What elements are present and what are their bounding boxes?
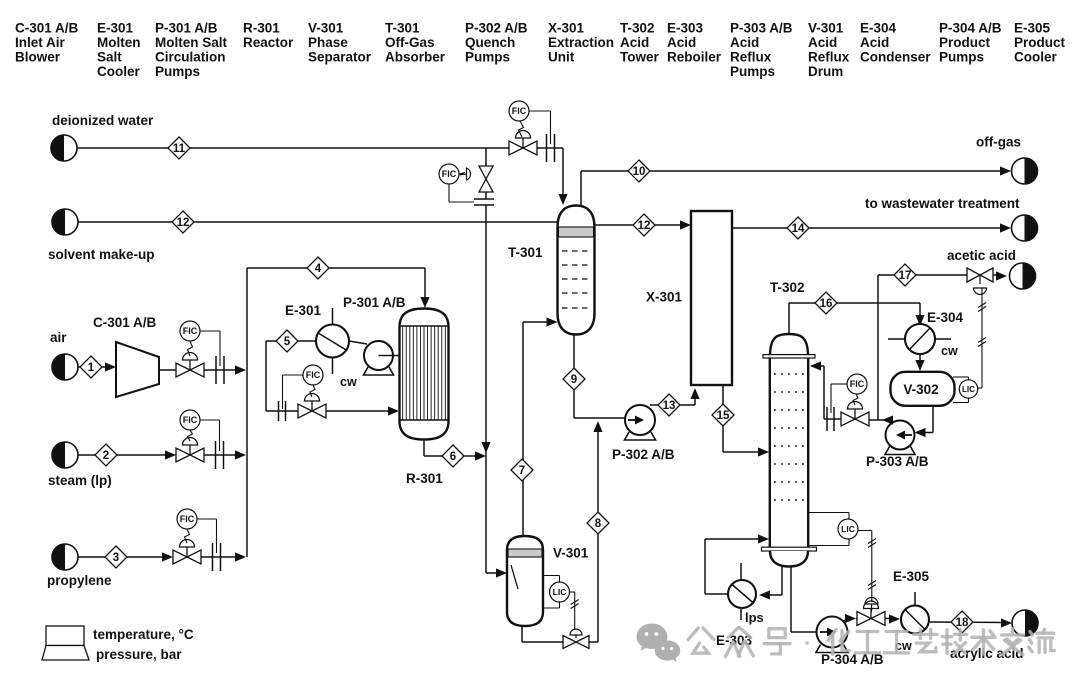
svg-text:V-301: V-301 bbox=[808, 21, 844, 36]
orifice propylene bbox=[212, 543, 214, 571]
svg-text:P-303 A/B: P-303 A/B bbox=[866, 454, 929, 469]
svg-text:off-gas: off-gas bbox=[976, 135, 1021, 150]
svg-text:T-301: T-301 bbox=[508, 245, 543, 260]
bottom head T-302 bbox=[770, 551, 808, 567]
svg-text:P-302 A/B: P-302 A/B bbox=[612, 447, 675, 462]
wire quench line to V-301 bbox=[485, 456, 487, 573]
svg-text:15: 15 bbox=[717, 410, 730, 422]
svg-text:pressure, bar: pressure, bar bbox=[96, 647, 182, 662]
vessel V-301 bbox=[507, 536, 543, 626]
node 11 bbox=[168, 137, 190, 159]
svg-text:acetic acid: acetic acid bbox=[947, 248, 1016, 263]
wire FIC tap air bbox=[200, 330, 220, 332]
svg-text:steam (lp): steam (lp) bbox=[48, 473, 112, 488]
svg-text:11: 11 bbox=[173, 143, 186, 155]
trays T-301 bbox=[562, 250, 590, 252]
orifice quench branch bbox=[485, 192, 487, 199]
FIC propylene bbox=[177, 509, 197, 529]
svg-text:V-301: V-301 bbox=[553, 546, 589, 561]
svg-text:FIC: FIC bbox=[183, 326, 198, 336]
product marker off-gas bbox=[1012, 158, 1038, 184]
vertical control valve quench branch bbox=[479, 166, 493, 179]
svg-text:T-302: T-302 bbox=[620, 21, 655, 36]
svg-text:Reflux: Reflux bbox=[730, 50, 772, 65]
FIC molten salt bbox=[303, 365, 323, 385]
signal FIC propylene bbox=[185, 529, 190, 543]
column T-301 bbox=[558, 206, 595, 335]
svg-text:FIC: FIC bbox=[180, 514, 195, 524]
wire cw stub E-305 bbox=[914, 592, 916, 605]
control valve air bbox=[176, 363, 190, 377]
wire node5 to E-301 bbox=[276, 340, 316, 342]
signal FIC molten salt bbox=[310, 385, 315, 397]
wire arrow into R-301 bbox=[420, 297, 429, 308]
svg-text:3: 3 bbox=[113, 552, 119, 564]
signal LIC V-301 bbox=[569, 591, 575, 593]
svg-text:12: 12 bbox=[638, 220, 651, 232]
svg-text:Tower: Tower bbox=[620, 50, 659, 65]
wire reboiler return bbox=[705, 593, 728, 595]
product marker acrylic acid bbox=[1012, 610, 1038, 636]
heat exchanger E-301 bbox=[316, 325, 349, 358]
wire E-301 cw bottom bbox=[332, 358, 334, 374]
svg-text:13: 13 bbox=[663, 400, 676, 412]
feed marker solvent make-up bbox=[52, 209, 78, 235]
FIC quench branch bbox=[439, 164, 459, 184]
wire FIC tap steam bbox=[200, 419, 220, 421]
svg-text:V-301: V-301 bbox=[308, 21, 344, 36]
node 5 bbox=[276, 330, 298, 352]
svg-text:T-302: T-302 bbox=[770, 280, 805, 295]
svg-text:Off-Gas: Off-Gas bbox=[385, 35, 435, 50]
wire T-301 to X-301 bbox=[595, 224, 688, 226]
wire P-301 to R-301 bbox=[391, 355, 400, 357]
svg-text:FIC: FIC bbox=[306, 370, 321, 380]
svg-text:X-301: X-301 bbox=[646, 290, 683, 305]
LIC V-301 bbox=[543, 575, 560, 577]
wire stream 16 bbox=[788, 303, 790, 334]
svg-text:17: 17 bbox=[899, 270, 912, 282]
node 12 T-301 overhead liquid bbox=[633, 214, 655, 236]
feed marker steam bbox=[52, 442, 78, 468]
svg-text:Drum: Drum bbox=[808, 64, 843, 79]
svg-text:P-303 A/B: P-303 A/B bbox=[730, 21, 793, 36]
control valve product bbox=[857, 612, 871, 626]
svg-text:Acid: Acid bbox=[808, 35, 837, 50]
band V-301 bbox=[508, 549, 542, 557]
control valve deionized water bbox=[509, 141, 523, 155]
orifice deionized water bbox=[546, 134, 548, 162]
svg-text:FIC: FIC bbox=[512, 106, 527, 116]
svg-text:2: 2 bbox=[103, 450, 109, 462]
svg-text:Molten: Molten bbox=[97, 35, 141, 50]
wire node6 to junction bbox=[464, 455, 482, 457]
wire off-gas line bbox=[580, 171, 582, 206]
watermark wechat icon bbox=[637, 624, 681, 662]
wire acetic acid line bbox=[878, 274, 894, 276]
signal LIC T-302 bbox=[858, 530, 872, 532]
svg-text:Phase: Phase bbox=[308, 35, 348, 50]
svg-text:cw: cw bbox=[941, 344, 958, 358]
wire FIC tap bbox=[529, 110, 551, 112]
FIC deionized water bbox=[509, 101, 529, 121]
wire R-301 outlet bbox=[423, 440, 425, 457]
svg-text:4: 4 bbox=[315, 263, 322, 275]
FIC reflux bbox=[847, 374, 867, 394]
packing band T-301 bbox=[559, 227, 594, 237]
svg-text:E-305: E-305 bbox=[1014, 21, 1051, 36]
signal LIC V-302 bbox=[978, 387, 982, 389]
wire air to compressor bbox=[79, 366, 113, 368]
wire P-303 discharge bbox=[884, 420, 892, 422]
wire air to header bbox=[204, 369, 242, 371]
svg-text:FIC: FIC bbox=[183, 415, 198, 425]
wire FIC tap propylene bbox=[197, 518, 217, 520]
svg-text:E-301: E-301 bbox=[285, 303, 322, 318]
svg-text:P-304 A/B: P-304 A/B bbox=[939, 21, 1002, 36]
heat exchanger E-304 bbox=[905, 324, 935, 354]
svg-text:Circulation: Circulation bbox=[155, 50, 226, 65]
control valve molten salt bbox=[298, 404, 312, 418]
svg-text:FIC: FIC bbox=[442, 169, 457, 179]
node 16 bbox=[815, 292, 837, 314]
FIC air bbox=[180, 321, 200, 341]
svg-text:E-305: E-305 bbox=[893, 569, 930, 584]
svg-text:Separator: Separator bbox=[308, 50, 372, 65]
wire compressor to valve bbox=[159, 369, 176, 371]
svg-text:Condenser: Condenser bbox=[860, 50, 931, 65]
orifice reflux bbox=[826, 407, 828, 431]
svg-text:P-301 A/B: P-301 A/B bbox=[343, 295, 406, 310]
orifice air bbox=[215, 356, 217, 384]
node 18 bbox=[951, 611, 973, 633]
wire P-302 discharge stream 13 bbox=[650, 404, 695, 406]
node 10 bbox=[628, 160, 650, 182]
signal FIC to valve bbox=[519, 121, 524, 137]
svg-text:Pumps: Pumps bbox=[465, 50, 510, 65]
control valve acetic acid bbox=[967, 268, 980, 282]
wire deionized water line bbox=[78, 147, 510, 149]
svg-text:LIC: LIC bbox=[962, 385, 975, 394]
wire wastewater line bbox=[732, 227, 1007, 229]
svg-text:R-301: R-301 bbox=[243, 21, 280, 36]
feed marker air bbox=[52, 354, 78, 380]
svg-text:E-301: E-301 bbox=[97, 21, 134, 36]
node 8 bbox=[587, 512, 609, 534]
svg-text:Reactor: Reactor bbox=[243, 35, 294, 50]
svg-text:Extraction: Extraction bbox=[548, 35, 614, 50]
control valve reflux bbox=[841, 412, 855, 426]
signal FIC reflux bbox=[853, 394, 858, 405]
wire stream 4 line bbox=[247, 267, 425, 269]
control valve steam bbox=[176, 448, 190, 462]
svg-text:lps: lps bbox=[745, 610, 764, 625]
control valve propylene bbox=[173, 550, 187, 564]
feed marker propylene bbox=[52, 544, 78, 570]
watermark text bbox=[688, 628, 698, 640]
svg-text:R-301: R-301 bbox=[406, 471, 443, 486]
node 7 bbox=[511, 459, 533, 481]
wire T-302 bottoms bbox=[790, 567, 792, 633]
svg-text:9: 9 bbox=[571, 374, 577, 386]
svg-text:1: 1 bbox=[88, 362, 95, 374]
svg-text:Acid: Acid bbox=[730, 35, 759, 50]
svg-text:Salt: Salt bbox=[97, 50, 122, 65]
wire P-304 discharge bbox=[843, 619, 852, 622]
pump P-304 A/B bbox=[816, 645, 848, 653]
heat exchanger E-303 bbox=[728, 580, 756, 608]
wire quench line down to junction bbox=[485, 205, 487, 456]
svg-text:P-301 A/B: P-301 A/B bbox=[155, 21, 218, 36]
node 12 bbox=[172, 211, 194, 233]
wire valve to stream 8 riser bbox=[589, 641, 598, 643]
svg-text:8: 8 bbox=[595, 518, 602, 530]
svg-text:Acid: Acid bbox=[860, 35, 889, 50]
svg-text:Cooler: Cooler bbox=[1014, 50, 1058, 65]
signal FIC air bbox=[188, 341, 193, 356]
vessel V-302 bbox=[891, 372, 955, 406]
top flange T-302 bbox=[763, 355, 815, 358]
svg-text:18: 18 bbox=[956, 617, 969, 629]
node 4 bbox=[307, 257, 329, 279]
svg-text:FIC: FIC bbox=[850, 379, 865, 389]
wire solvent make-up line bbox=[79, 221, 558, 223]
heat exchanger E-305 bbox=[901, 606, 929, 634]
svg-text:LIC: LIC bbox=[841, 524, 855, 534]
pump P-302 A/B bbox=[625, 432, 656, 440]
node 9 bbox=[563, 368, 585, 390]
wire E-304 to V-302 bbox=[919, 354, 921, 367]
svg-text:propylene: propylene bbox=[47, 573, 112, 588]
node 6 bbox=[442, 445, 464, 467]
svg-text:to wastewater treatment: to wastewater treatment bbox=[865, 196, 1020, 211]
svg-text:16: 16 bbox=[820, 298, 833, 310]
svg-text:Pumps: Pumps bbox=[939, 50, 984, 65]
legend flag symbol bbox=[46, 626, 84, 646]
svg-text:E-303: E-303 bbox=[667, 21, 704, 36]
wire acrylic acid line bbox=[930, 621, 1008, 624]
node 14 bbox=[787, 217, 809, 239]
LIC T-302 bbox=[808, 512, 849, 514]
wire FIC tap molten salt bbox=[283, 374, 304, 376]
svg-text:Blower: Blower bbox=[15, 50, 61, 65]
svg-text:12: 12 bbox=[177, 217, 190, 229]
compressor C-301 bbox=[116, 342, 159, 397]
wire lps stubs bbox=[740, 563, 742, 580]
wire reflux to T-302 bbox=[824, 418, 841, 420]
node 3 bbox=[105, 546, 127, 568]
svg-text:T-301: T-301 bbox=[385, 21, 420, 36]
svg-text:Pumps: Pumps bbox=[155, 64, 200, 79]
svg-text:solvent make-up: solvent make-up bbox=[48, 247, 155, 262]
LIC V-302 bbox=[953, 376, 969, 378]
FIC steam bbox=[180, 410, 200, 430]
svg-text:C-301 A/B: C-301 A/B bbox=[93, 315, 157, 330]
wire FIC tap reflux bbox=[831, 383, 847, 385]
wire molten salt return bbox=[266, 340, 276, 342]
node 13 bbox=[658, 394, 680, 416]
bottom flange T-302 bbox=[762, 547, 817, 551]
svg-text:6: 6 bbox=[450, 451, 456, 463]
svg-text:10: 10 bbox=[633, 166, 646, 178]
product marker wastewater bbox=[1012, 215, 1038, 241]
wire V-302 bottoms to P-303 bbox=[932, 406, 934, 433]
svg-text:Acid: Acid bbox=[620, 35, 649, 50]
svg-text:Quench: Quench bbox=[465, 35, 515, 50]
svg-text:C-301 A/B: C-301 A/B bbox=[15, 21, 79, 36]
svg-text:E-304: E-304 bbox=[927, 310, 964, 325]
wire feed header bbox=[246, 268, 248, 557]
wire stream 7 bbox=[522, 322, 524, 536]
wire steam to header bbox=[204, 454, 242, 456]
svg-text:air: air bbox=[50, 330, 67, 345]
reactor R-301 bbox=[400, 309, 449, 440]
control valve V-301 bottoms bbox=[563, 636, 576, 649]
svg-text:X-301: X-301 bbox=[548, 21, 585, 36]
node 15 bbox=[712, 404, 734, 426]
svg-text:Cooler: Cooler bbox=[97, 64, 141, 79]
wire riser to acetic acid bbox=[877, 275, 879, 420]
node 2 bbox=[95, 444, 117, 466]
svg-text:temperature, °C: temperature, °C bbox=[93, 627, 194, 642]
wire propylene line bbox=[79, 556, 170, 558]
svg-text:Product: Product bbox=[939, 35, 991, 50]
wire stream 15 bbox=[722, 385, 724, 452]
svg-text:E-304: E-304 bbox=[860, 21, 897, 36]
trays T-302 bbox=[774, 373, 804, 375]
wire FIC tap quench bbox=[448, 184, 450, 202]
wire E-301 to P-301 bbox=[349, 341, 367, 344]
svg-text:Reboiler: Reboiler bbox=[667, 50, 722, 65]
wire reboiler draw bbox=[781, 566, 783, 595]
wire into T-301 top bbox=[562, 148, 564, 200]
pump P-301 A/B bbox=[364, 367, 394, 375]
wire valve to E-305 bbox=[885, 618, 896, 620]
wire propylene to header bbox=[201, 556, 242, 558]
svg-text:LIC: LIC bbox=[553, 587, 567, 597]
svg-text:Inlet Air: Inlet Air bbox=[15, 35, 66, 50]
svg-text:Unit: Unit bbox=[548, 50, 575, 65]
svg-text:14: 14 bbox=[792, 223, 805, 235]
orifice steam bbox=[215, 441, 217, 469]
svg-text:7: 7 bbox=[519, 465, 525, 477]
product marker acetic acid bbox=[1010, 263, 1036, 289]
weir V-301 bbox=[511, 565, 518, 589]
wire E-301 cw top bbox=[332, 308, 334, 325]
svg-text:5: 5 bbox=[284, 336, 291, 348]
column T-302 bbox=[770, 334, 808, 356]
svg-text:Reflux: Reflux bbox=[808, 50, 850, 65]
wire steam line bbox=[79, 454, 173, 456]
orifice molten salt bbox=[278, 401, 280, 421]
svg-text:Acid: Acid bbox=[667, 35, 696, 50]
svg-text:cw: cw bbox=[340, 375, 357, 389]
wire T-301 bottoms bbox=[573, 335, 575, 419]
pump P-303 A/B bbox=[885, 447, 915, 455]
wire V-301 bottoms bbox=[521, 626, 523, 642]
wire quench branch bbox=[485, 148, 487, 166]
wire cw stubs E-304 bbox=[888, 338, 905, 340]
svg-text:Absorber: Absorber bbox=[385, 50, 446, 65]
feed marker deionized water bbox=[51, 135, 77, 161]
svg-text:deionized water: deionized water bbox=[52, 113, 154, 128]
wire valve to R-301 bbox=[326, 410, 395, 412]
svg-text:P-302 A/B: P-302 A/B bbox=[465, 21, 528, 36]
svg-text:V-302: V-302 bbox=[903, 382, 938, 397]
svg-text:Product: Product bbox=[1014, 35, 1066, 50]
svg-text:Molten Salt: Molten Salt bbox=[155, 35, 228, 50]
svg-text:Pumps: Pumps bbox=[730, 64, 775, 79]
node 1 bbox=[80, 356, 102, 378]
node 17 bbox=[894, 264, 916, 286]
signal FIC steam bbox=[188, 430, 193, 441]
vessel X-301 bbox=[691, 211, 732, 385]
signal to vertical valve bbox=[459, 173, 466, 176]
